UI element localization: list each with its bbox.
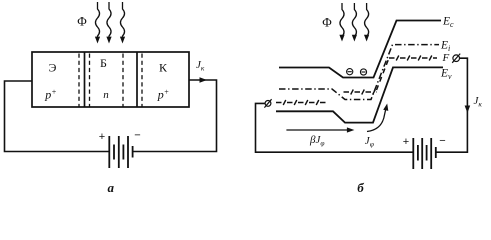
collector junction solid line [136, 52, 138, 107]
svg-text:p+: p+ [44, 88, 56, 102]
transistor body box (a) [32, 52, 189, 107]
battery (b) plate 2 short [417, 145, 419, 161]
Fermi level emitter side: dashes [276, 102, 328, 104]
svg-text:p+: p+ [157, 88, 169, 102]
quasi-Fermi level base: dashes [344, 91, 378, 93]
electron symbol 2 [360, 69, 366, 75]
wire right loop (a) [133, 80, 217, 152]
battery (a) plate 5 long [127, 136, 129, 168]
emitter depletion dashed line left [78, 54, 80, 108]
collector terminal symbol [452, 54, 460, 63]
emitter depletion dashed line right [89, 54, 91, 108]
svg-text:n: n [103, 89, 109, 101]
svg-text:Jк: Jк [474, 95, 483, 109]
photon wavy arrow 1 (a) [95, 2, 99, 38]
battery (b) plate 3 long [421, 138, 423, 169]
battery (a) plate 3 long [118, 136, 120, 168]
svg-text:Ev: Ev [440, 68, 452, 82]
photon wavy arrow 3 (b) [365, 3, 369, 37]
Fermi level emitter side: slashes [283, 100, 319, 105]
svg-text:Φ: Φ [77, 14, 87, 29]
svg-text:−: − [134, 130, 140, 142]
emitter junction solid line [84, 52, 86, 107]
Fermi level collector side: slashes [396, 56, 432, 61]
svg-text:б: б [357, 180, 364, 195]
battery (b) plate 4 short [426, 145, 428, 161]
battery (b) plate 1 long [412, 138, 414, 169]
photon wavy arrow 1 (b) [340, 3, 344, 37]
battery (b) plate 6 short [435, 147, 437, 158]
svg-text:βJφ: βJφ [309, 134, 325, 148]
intrinsic level Ei dash-dot line [279, 45, 439, 100]
Fermi level collector side: dashes [389, 57, 437, 59]
collector depletion dashed line left [122, 54, 124, 108]
photon wavy arrow 3 (a) [120, 2, 124, 38]
battery (a) plate 1 long [108, 136, 110, 168]
wire from emitter terminal to battery (b) [256, 103, 414, 152]
battery (b) plate 5 long [430, 138, 432, 169]
emitter terminal symbol [264, 99, 271, 107]
Fermi level junction rise [377, 58, 390, 90]
svg-text:а: а [108, 180, 115, 195]
svg-text:+: + [99, 131, 105, 143]
battery (a) plate 4 short [122, 145, 124, 160]
svg-text:Б: Б [100, 56, 107, 70]
battery (a) plate 6 short [132, 146, 134, 158]
photon wavy arrow 2 (b) [352, 3, 356, 37]
svg-text:Jк: Jк [196, 59, 205, 73]
svg-text:Э: Э [49, 61, 57, 75]
wire left loop (a) [5, 81, 110, 152]
collector depletion dashed line right [141, 54, 143, 108]
arrowhead collector current (a) [200, 77, 208, 83]
valence band Ev line [276, 67, 443, 122]
arrowhead J collector current (b) [465, 106, 471, 114]
svg-text:F: F [442, 52, 450, 64]
electron symbol 1 [347, 69, 353, 75]
conduction band Ec line [279, 21, 441, 78]
battery (a) plate 2 short [113, 145, 115, 160]
photocurrent gain arrow beta J [286, 129, 348, 131]
photon wavy arrow 2 (a) [107, 2, 111, 38]
wire from collector terminal to battery (b) [436, 58, 468, 152]
svg-text:Ec: Ec [442, 16, 454, 30]
svg-text:Φ: Φ [322, 15, 332, 30]
svg-text:+: + [403, 136, 409, 148]
photocurrent curved arrow J phi [367, 108, 386, 132]
svg-text:Jφ: Jφ [365, 135, 374, 149]
quasi-Fermi level base: slashes [351, 90, 376, 95]
svg-text:К: К [159, 61, 168, 75]
svg-text:−: − [439, 135, 445, 147]
